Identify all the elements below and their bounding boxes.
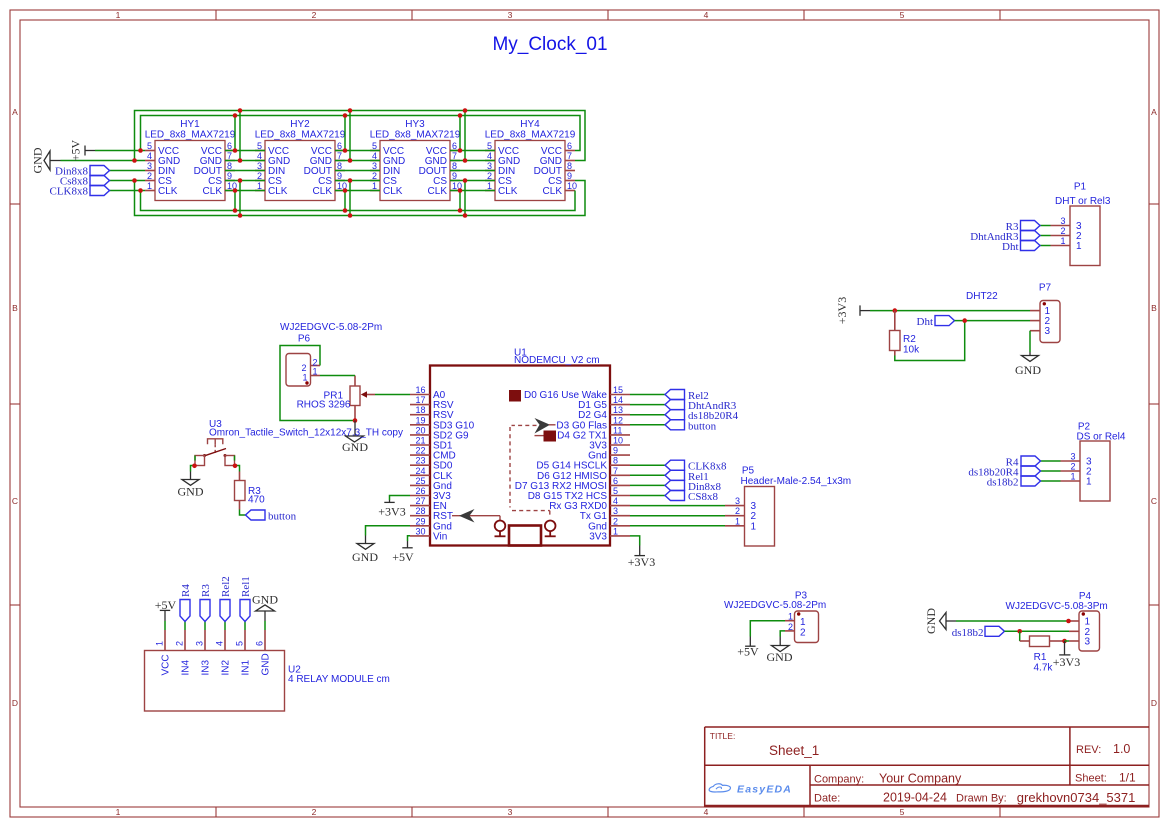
net label CLK8x8 bbox=[50, 186, 110, 198]
svg-text:HY2: HY2 bbox=[290, 119, 310, 130]
svg-text:5: 5 bbox=[147, 141, 152, 151]
svg-text:30: 30 bbox=[415, 526, 425, 536]
U1 USB connector bbox=[509, 526, 541, 546]
svg-text:GND: GND bbox=[342, 440, 368, 454]
U1 D0 indicator square bbox=[509, 390, 521, 402]
junction R2 top bbox=[893, 308, 898, 313]
wire GND to HY1 GND bbox=[61, 160, 146, 162]
svg-text:14: 14 bbox=[613, 395, 623, 405]
junction U3 right bbox=[233, 464, 238, 469]
svg-text:20: 20 bbox=[415, 425, 425, 435]
wire U3 right contact to R3 bbox=[235, 456, 240, 472]
svg-text:ds18b2: ds18b2 bbox=[952, 627, 984, 639]
svg-text:LED_8x8_MAX7219: LED_8x8_MAX7219 bbox=[485, 130, 576, 141]
svg-text:4: 4 bbox=[147, 151, 152, 161]
svg-text:21: 21 bbox=[415, 436, 425, 446]
wire net ds18b2 to P2 pin1 bbox=[1041, 480, 1061, 482]
svg-text:6: 6 bbox=[337, 141, 342, 151]
resistor R2 10k bbox=[890, 311, 921, 356]
U2 pins 1-6 bbox=[155, 630, 272, 676]
ground symbol GND (P3) bbox=[767, 637, 793, 665]
power symbol +3V3 (U1 pin26) bbox=[378, 500, 405, 519]
svg-text:1: 1 bbox=[735, 516, 740, 526]
net label Dht (pull-up) bbox=[917, 316, 955, 328]
power symbol +5V (P3) bbox=[737, 637, 759, 659]
svg-text:R1: R1 bbox=[1034, 652, 1047, 663]
wire net Rel2 to U2 bbox=[224, 622, 226, 631]
net label R3 (P1 pin3) bbox=[1006, 221, 1040, 234]
ground symbol GND (left of HY1) bbox=[31, 147, 61, 173]
svg-text:GND: GND bbox=[924, 608, 938, 634]
U1 D4 indicator square bbox=[535, 431, 557, 442]
wire net R4 to P2 pin3 bbox=[1041, 460, 1061, 462]
svg-text:HY4: HY4 bbox=[520, 119, 540, 130]
svg-text:DHT22: DHT22 bbox=[966, 291, 998, 302]
svg-text:3: 3 bbox=[1070, 452, 1075, 462]
svg-text:5: 5 bbox=[372, 141, 377, 151]
svg-text:+3V3: +3V3 bbox=[378, 505, 405, 519]
potentiometer PR1 RHOS 3296 bbox=[297, 376, 375, 421]
svg-text:P1: P1 bbox=[1074, 182, 1087, 193]
svg-text:1: 1 bbox=[372, 181, 377, 191]
svg-text:2: 2 bbox=[301, 363, 306, 373]
wire U1 pin12 to net button bbox=[630, 424, 665, 426]
wire U1 pin8 to net CLK8x8 bbox=[630, 464, 665, 466]
svg-text:8: 8 bbox=[613, 456, 618, 466]
svg-text:11: 11 bbox=[613, 425, 622, 435]
svg-text:4: 4 bbox=[704, 807, 709, 817]
net label Rel1 (U1 pin7) bbox=[665, 470, 709, 483]
svg-text:R4: R4 bbox=[180, 584, 192, 597]
svg-text:6: 6 bbox=[227, 141, 232, 151]
svg-text:Header-Male-2.54_1x3m: Header-Male-2.54_1x3m bbox=[741, 476, 852, 487]
svg-text:My_Clock_01: My_Clock_01 bbox=[492, 34, 607, 55]
wire GND to P4 pin1 bbox=[956, 620, 1069, 622]
svg-text:3: 3 bbox=[1045, 326, 1051, 337]
resistor R3 470 bbox=[235, 472, 266, 510]
svg-text:8: 8 bbox=[227, 161, 232, 171]
svg-text:IN2: IN2 bbox=[221, 660, 232, 676]
svg-text:+5V: +5V bbox=[69, 139, 83, 161]
svg-text:1: 1 bbox=[1076, 241, 1082, 252]
wire net R4 to U2 bbox=[184, 622, 186, 631]
svg-text:2: 2 bbox=[788, 622, 793, 632]
svg-text:+3V3: +3V3 bbox=[1053, 655, 1080, 669]
svg-text:P7: P7 bbox=[1039, 283, 1052, 294]
U1 RST button bbox=[495, 521, 506, 537]
connector P4 WJ2EDGVC-5.08-3Pm bbox=[1006, 591, 1108, 651]
svg-text:Dht: Dht bbox=[917, 316, 934, 328]
svg-text:D: D bbox=[12, 698, 18, 708]
wire U1 pin14 to net DhtAndR3 bbox=[630, 404, 665, 406]
svg-text:9: 9 bbox=[567, 171, 572, 181]
svg-text:3: 3 bbox=[508, 807, 513, 817]
svg-text:C: C bbox=[1151, 496, 1157, 506]
wire U1 Gnd pin2 to P5 pin1 bbox=[630, 525, 725, 527]
svg-text:CLK: CLK bbox=[203, 186, 223, 197]
svg-text:8: 8 bbox=[452, 161, 457, 171]
wire U1 Rx pin4 to P5 pin3 bbox=[630, 505, 725, 507]
svg-text:9: 9 bbox=[613, 446, 618, 456]
svg-text:1/1: 1/1 bbox=[1119, 771, 1136, 785]
svg-text:1: 1 bbox=[1060, 236, 1065, 246]
svg-text:13: 13 bbox=[613, 405, 623, 415]
wire U1 pin5 to net CS8x8 bbox=[630, 495, 665, 497]
wire U1 pin7 to net Rel1 bbox=[630, 474, 665, 476]
svg-text:HY3: HY3 bbox=[405, 119, 425, 130]
svg-text:LED_8x8_MAX7219: LED_8x8_MAX7219 bbox=[370, 130, 461, 141]
svg-text:1: 1 bbox=[155, 641, 165, 646]
svg-text:1: 1 bbox=[147, 181, 152, 191]
svg-text:TITLE:: TITLE: bbox=[710, 731, 736, 741]
wire R3 to button flag bbox=[240, 510, 246, 516]
svg-text:12: 12 bbox=[613, 415, 623, 425]
svg-text:9: 9 bbox=[452, 171, 457, 181]
wire P6 pin1 to PR1 top bbox=[320, 375, 355, 377]
wires between HY2 and HY3 bbox=[335, 111, 380, 216]
svg-text:2: 2 bbox=[312, 10, 317, 20]
svg-text:Vin: Vin bbox=[433, 531, 447, 542]
svg-text:Sheet:: Sheet: bbox=[1075, 773, 1107, 785]
wire +3V3 to P7 pin1 bbox=[870, 310, 1030, 312]
svg-text:CLK8x8: CLK8x8 bbox=[50, 186, 89, 198]
wire net DhtAndR3 to P1 pin2 bbox=[1040, 235, 1051, 237]
svg-text:B: B bbox=[12, 303, 18, 313]
power symbol +5V (left of HY1) bbox=[69, 139, 96, 161]
U1 D3 flash arrow bbox=[535, 418, 556, 434]
wire net R3 to U2 bbox=[204, 622, 206, 631]
U1 FLASH button bbox=[545, 521, 556, 537]
junctions left of HY1 bbox=[132, 148, 143, 193]
svg-text:IN1: IN1 bbox=[241, 660, 252, 676]
svg-text:1: 1 bbox=[487, 181, 492, 191]
svg-text:1: 1 bbox=[1086, 477, 1092, 488]
connector P3 WJ2EDGVC-5.08-2Pm bbox=[724, 591, 826, 643]
svg-text:GND: GND bbox=[1015, 363, 1041, 377]
svg-text:1: 1 bbox=[257, 181, 262, 191]
LED matrix module HY4 (LED_8x8_MAX7219) bbox=[485, 119, 577, 201]
svg-text:CS8x8: CS8x8 bbox=[688, 491, 718, 503]
svg-text:A: A bbox=[12, 107, 18, 117]
junction P4 pin1 bbox=[1066, 619, 1071, 624]
power symbol +5V (U2 VCC) bbox=[155, 598, 177, 630]
wire CLK8x8 to HY1 CLK bbox=[110, 190, 146, 192]
wire CS bus (outer bottom rail) bbox=[135, 181, 586, 216]
svg-text:17: 17 bbox=[415, 395, 425, 405]
svg-text:2: 2 bbox=[312, 807, 317, 817]
svg-text:6: 6 bbox=[255, 641, 265, 646]
svg-text:4 RELAY MODULE cm: 4 RELAY MODULE cm bbox=[288, 674, 390, 685]
junction U3 left bbox=[192, 464, 197, 469]
svg-text:9: 9 bbox=[337, 171, 342, 181]
wires between HY1 and HY2 bbox=[225, 111, 265, 216]
junction PR1 bottom bbox=[353, 418, 358, 423]
svg-text:19: 19 bbox=[415, 415, 425, 425]
EasyEDA logo bbox=[709, 784, 792, 796]
svg-text:2: 2 bbox=[613, 516, 618, 526]
wire GND bus (outer top rail) bbox=[135, 111, 586, 161]
ground symbol GND (P4 pin1) bbox=[924, 608, 956, 634]
svg-text:10: 10 bbox=[613, 436, 623, 446]
svg-text:HY1: HY1 bbox=[180, 119, 200, 130]
svg-text:22: 22 bbox=[415, 446, 425, 456]
svg-text:Omron_Tactile_Switch_12x12x7.3: Omron_Tactile_Switch_12x12x7.3_TH copy bbox=[209, 428, 403, 439]
wire U1 3V3 pin1 to +3V3 bbox=[630, 536, 640, 546]
net label R4 (P2 pin3) bbox=[1006, 456, 1041, 469]
svg-text:button: button bbox=[688, 420, 717, 432]
U1 dashed flash-button path bbox=[510, 425, 550, 515]
wire VCC bus (inner top rail) bbox=[141, 116, 581, 151]
net label button (at R3) bbox=[246, 510, 297, 523]
net label R4 (U2 input) bbox=[180, 584, 192, 622]
ground symbol GND below PR1 bbox=[342, 421, 368, 455]
svg-text:grekhovn0734_5371: grekhovn0734_5371 bbox=[1017, 790, 1136, 805]
svg-text:2: 2 bbox=[175, 641, 185, 646]
svg-text:3V3: 3V3 bbox=[589, 531, 607, 542]
net label ds18b2 (P2 pin1) bbox=[987, 476, 1041, 489]
svg-text:GND: GND bbox=[767, 650, 793, 664]
svg-text:16: 16 bbox=[415, 385, 425, 395]
svg-text:6: 6 bbox=[613, 476, 618, 486]
svg-text:Dht: Dht bbox=[1002, 241, 1019, 253]
wire U1 pin6 to net Din8x8 bbox=[630, 484, 665, 486]
svg-text:15: 15 bbox=[613, 385, 623, 395]
svg-text:+5V: +5V bbox=[737, 645, 759, 659]
svg-text:1: 1 bbox=[613, 526, 618, 536]
svg-text:CLK: CLK bbox=[158, 186, 178, 197]
svg-text:2: 2 bbox=[1060, 226, 1065, 236]
svg-text:2: 2 bbox=[735, 506, 740, 516]
svg-text:Sheet_1: Sheet_1 bbox=[769, 743, 819, 758]
svg-text:23: 23 bbox=[415, 456, 425, 466]
svg-text:7: 7 bbox=[452, 151, 457, 161]
pushbutton U3 Omron_Tactile_Switch_12x12x7.3_TH copy bbox=[195, 419, 403, 466]
svg-text:9: 9 bbox=[227, 171, 232, 181]
svg-text:WJ2EDGVC-5.08-2Pm: WJ2EDGVC-5.08-2Pm bbox=[280, 322, 382, 333]
net label Din8x8 (U1 pin6) bbox=[665, 480, 722, 493]
svg-text:5: 5 bbox=[235, 641, 245, 646]
svg-text:1: 1 bbox=[1070, 472, 1075, 482]
svg-text:1: 1 bbox=[116, 807, 121, 817]
ground symbol GND (U1 pin29) bbox=[352, 536, 378, 565]
wire U3 left contact to ground bbox=[191, 456, 196, 472]
wire U1 Tx pin3 to P5 pin2 bbox=[630, 515, 725, 517]
microcontroller module U1 NODEMCU_V2 bbox=[430, 348, 610, 546]
svg-text:8: 8 bbox=[567, 161, 572, 171]
ground symbol GND below U3 bbox=[178, 472, 204, 499]
svg-text:Your Company: Your Company bbox=[879, 772, 962, 786]
svg-text:EasyEDA: EasyEDA bbox=[737, 784, 792, 796]
net label DhtAndR3 (P1 pin2) bbox=[970, 231, 1040, 244]
svg-text:A: A bbox=[1151, 107, 1157, 117]
svg-text:1.0: 1.0 bbox=[1113, 742, 1130, 756]
svg-text:1: 1 bbox=[312, 367, 317, 377]
net label ds18b2 (P4) bbox=[952, 626, 1005, 639]
svg-text:5: 5 bbox=[900, 807, 905, 817]
svg-text:25: 25 bbox=[415, 476, 425, 486]
connector P6 WJ2EDGVC-5.08-2Pm bbox=[280, 322, 382, 386]
svg-text:LED_8x8_MAX7219: LED_8x8_MAX7219 bbox=[145, 130, 236, 141]
svg-text:3: 3 bbox=[1060, 216, 1065, 226]
svg-text:P6: P6 bbox=[298, 334, 311, 345]
svg-text:+5V: +5V bbox=[392, 550, 414, 564]
wire P6 pin2 loop to PR1 bottom bbox=[280, 346, 355, 421]
connector P2 DS or Rel4 bbox=[1061, 422, 1126, 502]
svg-text:2: 2 bbox=[487, 171, 492, 181]
svg-text:3: 3 bbox=[508, 10, 513, 20]
svg-text:WJ2EDGVC-5.08-2Pm: WJ2EDGVC-5.08-2Pm bbox=[724, 600, 826, 611]
wire CLK bus (inner bottom rail) bbox=[141, 191, 576, 211]
net label R3 (U2 input) bbox=[200, 584, 212, 622]
wire U1 A0 to PR1 wiper bbox=[375, 394, 410, 396]
net label CLK8x8 (U1 pin8) bbox=[665, 460, 727, 473]
svg-text:R3: R3 bbox=[200, 584, 212, 597]
svg-text:VCC: VCC bbox=[161, 654, 172, 675]
svg-text:6: 6 bbox=[567, 141, 572, 151]
svg-text:ds18b2: ds18b2 bbox=[987, 477, 1019, 489]
wire U1 3V3 pin26 to +3V3 bbox=[390, 496, 411, 501]
svg-text:CLK: CLK bbox=[428, 186, 448, 197]
svg-text:B: B bbox=[1151, 303, 1157, 313]
resistor R1 4.7k bbox=[1020, 636, 1065, 674]
LED matrix module HY2 (LED_8x8_MAX7219) bbox=[255, 119, 347, 201]
svg-text:29: 29 bbox=[415, 516, 425, 526]
svg-text:2: 2 bbox=[257, 171, 262, 181]
svg-text:button: button bbox=[268, 511, 297, 523]
net label Dht (P1 pin1) bbox=[1002, 241, 1040, 254]
ground symbol GND (P7 pin3) bbox=[1015, 352, 1041, 377]
power symbol +3V3 (P4 pin3) bbox=[1053, 641, 1080, 669]
wire P3 pin2 to ground bbox=[780, 631, 785, 637]
wire U1 pin13 to net ds18b20R4 bbox=[630, 414, 665, 416]
net label Cs8x8 bbox=[60, 176, 110, 188]
svg-text:1: 1 bbox=[788, 612, 793, 622]
svg-text:3: 3 bbox=[147, 161, 152, 171]
wire ds18b2 to P4 pin2 bbox=[1005, 630, 1070, 632]
svg-text:3: 3 bbox=[257, 161, 262, 171]
wire Cs8x8 to HY1 CS bbox=[110, 180, 146, 182]
svg-text:4: 4 bbox=[613, 496, 618, 506]
connector P7 DHT22 bbox=[966, 283, 1060, 343]
svg-text:28: 28 bbox=[415, 506, 425, 516]
svg-text:CLK: CLK bbox=[498, 186, 518, 197]
svg-text:+3V3: +3V3 bbox=[835, 297, 849, 324]
svg-text:3: 3 bbox=[195, 641, 205, 646]
svg-text:2019-04-24: 2019-04-24 bbox=[883, 791, 947, 805]
svg-text:7: 7 bbox=[337, 151, 342, 161]
wires between HY3 and HY4 bbox=[450, 111, 495, 216]
svg-text:10k: 10k bbox=[903, 345, 920, 356]
wire junction down to R1 bbox=[1019, 631, 1021, 641]
svg-text:CLK: CLK bbox=[313, 186, 333, 197]
junction ds18b2 wire bbox=[1017, 629, 1022, 634]
wire U1 Gnd pin29 to ground bbox=[366, 526, 411, 536]
wire net R3 to P1 pin3 bbox=[1040, 225, 1051, 227]
svg-text:CLK: CLK bbox=[543, 186, 563, 197]
svg-text:+3V3: +3V3 bbox=[628, 555, 655, 569]
net label Din8x8 bbox=[55, 166, 110, 178]
net label ds18b20R4 (P2 pin2) bbox=[968, 466, 1040, 479]
wire P7 pin3 to ground bbox=[1029, 331, 1031, 352]
svg-text:IN4: IN4 bbox=[181, 660, 192, 676]
svg-text:4: 4 bbox=[257, 151, 262, 161]
svg-text:GND: GND bbox=[31, 147, 45, 173]
svg-text:4.7k: 4.7k bbox=[1034, 663, 1054, 674]
LED matrix module HY3 (LED_8x8_MAX7219) bbox=[370, 119, 462, 201]
svg-text:7: 7 bbox=[567, 151, 572, 161]
svg-text:NODEMCU_V2 cm: NODEMCU_V2 cm bbox=[514, 355, 600, 366]
connector P1 DHT or Rel3 bbox=[1051, 182, 1111, 266]
svg-text:IN3: IN3 bbox=[201, 660, 212, 676]
junction Dht wire bbox=[962, 318, 967, 323]
wire U1 pin15 to net Rel2 bbox=[630, 394, 665, 396]
svg-text:GND: GND bbox=[178, 485, 204, 499]
junctions between HY2 and HY3 bbox=[343, 108, 353, 218]
svg-text:18: 18 bbox=[415, 405, 425, 415]
U1 left pins 16-30 bbox=[410, 385, 475, 542]
net label ds18b20R4 (U1 pin13) bbox=[665, 410, 739, 423]
net label DhtAndR3 (U1 pin14) bbox=[665, 400, 737, 413]
wire net ds18b20R4 to P2 pin2 bbox=[1041, 470, 1061, 472]
ground symbol GND (U2 GND) bbox=[252, 593, 278, 631]
svg-text:4: 4 bbox=[215, 641, 225, 646]
svg-text:4: 4 bbox=[704, 10, 709, 20]
svg-text:D: D bbox=[1151, 698, 1157, 708]
power symbol +3V3 (DHT22 supply) bbox=[835, 297, 870, 324]
svg-text:CLK: CLK bbox=[268, 186, 288, 197]
wire Din8x8 to HY1 DIN bbox=[110, 170, 146, 172]
svg-text:RHOS 3296: RHOS 3296 bbox=[297, 400, 351, 411]
svg-text:Drawn By:: Drawn By: bbox=[956, 793, 1007, 805]
svg-text:3: 3 bbox=[487, 161, 492, 171]
svg-text:REV:: REV: bbox=[1076, 744, 1101, 756]
svg-text:3: 3 bbox=[735, 496, 740, 506]
svg-text:4: 4 bbox=[372, 151, 377, 161]
svg-text:470: 470 bbox=[248, 495, 265, 506]
svg-text:LED_8x8_MAX7219: LED_8x8_MAX7219 bbox=[255, 130, 346, 141]
svg-text:6: 6 bbox=[452, 141, 457, 151]
net label button (U1 pin12) bbox=[665, 420, 717, 433]
svg-text:R2: R2 bbox=[903, 334, 916, 345]
wire U1 Vin pin30 to +5V bbox=[408, 536, 411, 541]
wire R2 bottom to Dht net bbox=[895, 321, 965, 361]
svg-text:P5: P5 bbox=[742, 466, 755, 477]
title block bbox=[705, 727, 1149, 807]
svg-text:C: C bbox=[12, 496, 18, 506]
net label Rel1 (U2 input) bbox=[240, 576, 252, 621]
U1 RST wire and arrow bbox=[452, 509, 500, 523]
junction R1 right bbox=[1062, 639, 1067, 644]
svg-text:1: 1 bbox=[302, 373, 307, 383]
svg-text:2: 2 bbox=[147, 171, 152, 181]
relay module U2 4 RELAY MODULE cm bbox=[145, 651, 390, 712]
svg-text:2: 2 bbox=[372, 171, 377, 181]
svg-text:8: 8 bbox=[337, 161, 342, 171]
wire +5V to HY1 VCC bbox=[95, 150, 145, 152]
connector P5 Header-Male-2.54_1x3m bbox=[725, 466, 851, 547]
svg-text:GND: GND bbox=[261, 653, 272, 675]
svg-text:Rel1: Rel1 bbox=[240, 576, 252, 597]
svg-text:26: 26 bbox=[415, 486, 425, 496]
svg-text:5: 5 bbox=[900, 10, 905, 20]
svg-text:+5V: +5V bbox=[155, 598, 177, 612]
power symbol +3V3 (U1 pin1) bbox=[628, 546, 655, 570]
svg-text:3: 3 bbox=[1085, 637, 1091, 648]
wire P3 pin1 to +5V bbox=[750, 621, 785, 637]
svg-text:2: 2 bbox=[1070, 462, 1075, 472]
net label CS8x8 (U1 pin5) bbox=[665, 491, 718, 504]
net label Rel2 (U2 input) bbox=[220, 576, 232, 621]
